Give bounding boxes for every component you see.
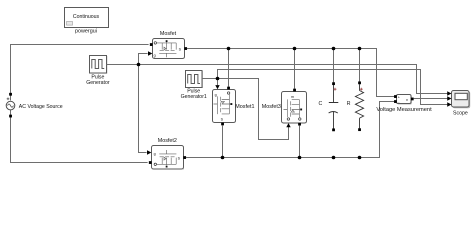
capacitor C	[329, 82, 339, 131]
wire Voltage Measurement v to Scope input 2	[414, 98, 448, 100]
wire gate branch down to Mosfet2 g	[139, 65, 147, 153]
wire Pulse Generator output long run to Scope input 1	[107, 65, 448, 94]
wire Mosfet1 S to bottom rail	[222, 125, 224, 157]
svg-text:Mosfet3: Mosfet3	[262, 104, 281, 110]
wire Mosfet3 S to bottom rail	[299, 125, 301, 157]
port Mosfet1 S	[221, 123, 224, 126]
junction on Pulse Generator1 net	[216, 77, 220, 81]
svg-text:Generator: Generator	[86, 80, 110, 86]
svg-text:Voltage Measurement: Voltage Measurement	[376, 107, 432, 113]
wire top rail to resistor R	[359, 49, 361, 82]
junction top rail at Mosfet1	[227, 47, 231, 51]
Scope block	[452, 91, 471, 109]
svg-text:m: m	[291, 95, 294, 99]
port Mosfet S	[184, 47, 187, 50]
wire gate branch up to Mosfet g	[139, 54, 148, 65]
port arrow Mosfet3 g	[286, 123, 290, 127]
svg-text:g: g	[154, 53, 156, 57]
svg-text:powergui: powergui	[75, 29, 97, 35]
junction top rail at R	[358, 47, 362, 51]
junction top rail at C	[332, 47, 336, 51]
port arrow Scope input 1	[447, 91, 451, 95]
wire top rail to Mosfet1 D	[228, 49, 230, 87]
wire AC source top to Mosfet D	[11, 45, 149, 101]
port arrow Mosfet2 g	[147, 150, 151, 154]
svg-text:Mosfet2: Mosfet2	[158, 138, 177, 144]
svg-text:Mosfet: Mosfet	[160, 31, 177, 37]
Mosfet2 block	[152, 146, 185, 170]
powergui block	[65, 8, 110, 29]
port Voltage Measurement -	[394, 100, 397, 103]
port arrow Mosfet g	[148, 51, 152, 55]
port Mosfet2 D	[149, 161, 152, 164]
junction bottom rail at Mosfet1	[221, 156, 225, 160]
Pulse Generator1 block	[186, 71, 204, 89]
wire top rail to Mosfet3 D	[294, 49, 296, 89]
svg-text:Mosfet1: Mosfet1	[235, 104, 254, 110]
Mosfet block	[153, 39, 186, 60]
Mosfet3 block	[282, 92, 308, 124]
wire Pulse Generator1 branch up and long run to Scope input 3	[218, 70, 448, 105]
port arrow Scope input 3	[447, 102, 451, 106]
Pulse Generator block	[90, 56, 108, 74]
junction bottom rail at R	[358, 156, 362, 160]
Mosfet1 block	[213, 90, 237, 124]
port Voltage Measurement v	[411, 98, 414, 101]
wire AC source bottom to Mosfet2 D	[11, 109, 148, 162]
svg-text:AC Voltage Source: AC Voltage Source	[19, 104, 63, 110]
port arrow Scope input 2	[447, 96, 451, 100]
port arrow Mosfet1 g	[215, 85, 219, 89]
svg-text:g: g	[215, 93, 217, 97]
wire bottom rail Mosfet2 S to Voltage Measurement -	[186, 102, 394, 158]
port Mosfet3 D	[293, 89, 296, 92]
wire Pulse Generator1 branch down to Mosfet1 gate	[217, 79, 219, 86]
svg-text:Continuous: Continuous	[73, 14, 100, 20]
port Mosfet1 D	[227, 87, 230, 90]
port Mosfet3 S	[298, 123, 301, 126]
Voltage Measurement block	[397, 95, 412, 105]
wire Pulse Generator1 to Mosfet3 gate	[202, 79, 289, 140]
svg-text:C: C	[319, 101, 323, 107]
port Voltage Measurement +	[394, 95, 397, 98]
svg-text:v: v	[406, 97, 408, 102]
wire top rail to capacitor C	[333, 49, 335, 83]
junction bottom rail at C	[332, 156, 336, 160]
junction on Pulse Generator net	[137, 63, 141, 67]
junction top rail at Mosfet3	[293, 47, 297, 51]
AC Voltage Source V1	[6, 93, 15, 118]
port Mosfet D	[150, 43, 153, 46]
resistor R	[355, 81, 363, 131]
svg-text:g: g	[154, 152, 156, 156]
svg-text:R: R	[347, 101, 351, 107]
port Mosfet2 S	[183, 156, 186, 159]
svg-text:Generator1: Generator1	[181, 94, 207, 100]
junction bottom rail at Mosfet3	[298, 156, 302, 160]
svg-text:Scope: Scope	[453, 110, 468, 116]
wire Mosfet S to top rail and Voltage Measurement +	[187, 49, 394, 97]
